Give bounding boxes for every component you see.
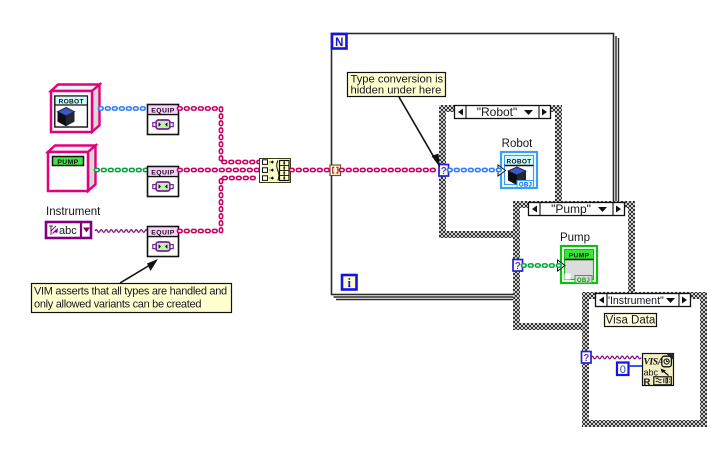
svg-text:"Pump": "Pump" <box>551 202 591 216</box>
label Visa Data <box>605 314 657 327</box>
case structure "Instrument" <box>582 292 707 427</box>
subVI EQUIP 1 <box>148 105 179 135</box>
case selector label "Robot" <box>455 105 551 119</box>
wire tunnel -> pump icon (green chain) <box>523 263 560 268</box>
wire instrument control -> equip3 (purple squiggle) <box>95 230 148 233</box>
subVI EQUIP 2 <box>148 167 179 197</box>
numeric constant 0 <box>617 363 629 376</box>
wire equip1 -> build array (magenta chain, elbow) <box>179 109 259 163</box>
svg-text:OBJ: OBJ <box>577 278 590 284</box>
comment "VIM asserts..." <box>32 284 232 313</box>
svg-text:VIM asserts that all types are: VIM asserts that all types are handled a… <box>34 286 227 298</box>
wire pump->equip2 (green class chain) <box>96 168 148 173</box>
svg-text:ROBOT: ROBOT <box>507 159 532 166</box>
svg-text:Visa Data: Visa Data <box>606 315 656 327</box>
wire 0 -> visa open (blue) <box>629 365 642 367</box>
pump class cube constant <box>48 146 96 192</box>
svg-text:?: ? <box>583 353 589 364</box>
wire loop tunnel -> case tunnel (magenta chain) <box>341 168 439 173</box>
comment "Type conversion is hidden under here" <box>348 73 446 97</box>
loop count terminal N <box>332 34 347 49</box>
tunnel ? on Pump case <box>513 260 523 273</box>
svg-text:i: i <box>348 276 352 290</box>
build array node <box>260 159 291 183</box>
svg-text:EQUIP: EQUIP <box>151 229 174 236</box>
svg-text:EQUIP: EQUIP <box>151 169 174 176</box>
loop input tunnel (indexing) <box>330 165 341 176</box>
Pump class constant icon <box>558 246 598 284</box>
svg-text:Instrument: Instrument <box>46 206 101 218</box>
svg-text:abc: abc <box>59 225 77 237</box>
svg-text:PUMP: PUMP <box>569 253 590 260</box>
svg-text:hidden under here: hidden under here <box>351 85 442 97</box>
wire equip2 -> build array (magenta chain) <box>179 168 259 173</box>
svg-text:N: N <box>335 37 343 49</box>
svg-text:PUMP: PUMP <box>57 159 78 166</box>
arrow comment -> tunnel <box>399 97 440 168</box>
wire equip3 -> build array (magenta chain, elbow) <box>179 178 259 231</box>
svg-text:only allowed variants can be c: only allowed variants can be created <box>34 299 201 311</box>
tunnel ? on Robot case <box>439 165 449 178</box>
svg-text:?: ? <box>441 166 447 177</box>
svg-text:Robot: Robot <box>502 138 533 150</box>
wire build array -> loop tunnel (magenta chain) <box>291 168 330 173</box>
VISA resource name control (abc) <box>46 222 91 238</box>
VISA Open icon <box>643 354 674 388</box>
for loop border <box>332 34 619 300</box>
case structure "Pump" <box>513 201 635 330</box>
svg-text:?: ? <box>515 261 521 272</box>
svg-text:ROBOT: ROBOT <box>59 99 84 106</box>
subVI EQUIP 3 <box>148 227 179 257</box>
svg-text:"Robot": "Robot" <box>477 105 518 119</box>
Robot class constant icon <box>498 152 537 188</box>
svg-text:0: 0 <box>620 364 626 376</box>
arrow comment -> equip3 <box>120 259 158 283</box>
svg-text:Pump: Pump <box>560 232 590 244</box>
case selector label "Instrument" <box>596 294 691 308</box>
svg-text:"Instrument": "Instrument" <box>606 295 664 307</box>
wire tunnel -> visa open (purple squiggle) <box>591 356 641 359</box>
wire robot->equip1 (blue class chain) <box>100 106 148 111</box>
case structure "Robot" <box>439 105 562 238</box>
svg-text:VISA: VISA <box>644 358 664 368</box>
svg-text:OBJ: OBJ <box>519 182 532 188</box>
svg-text:R: R <box>644 377 651 388</box>
loop iteration terminal i <box>342 275 357 290</box>
case selector label "Pump" <box>529 202 625 216</box>
robot class cube constant <box>51 85 100 133</box>
wire tunnel -> robot icon (blue chain) <box>449 168 500 173</box>
svg-text:EQUIP: EQUIP <box>151 107 174 114</box>
tunnel ? on Instrument case <box>582 352 592 365</box>
